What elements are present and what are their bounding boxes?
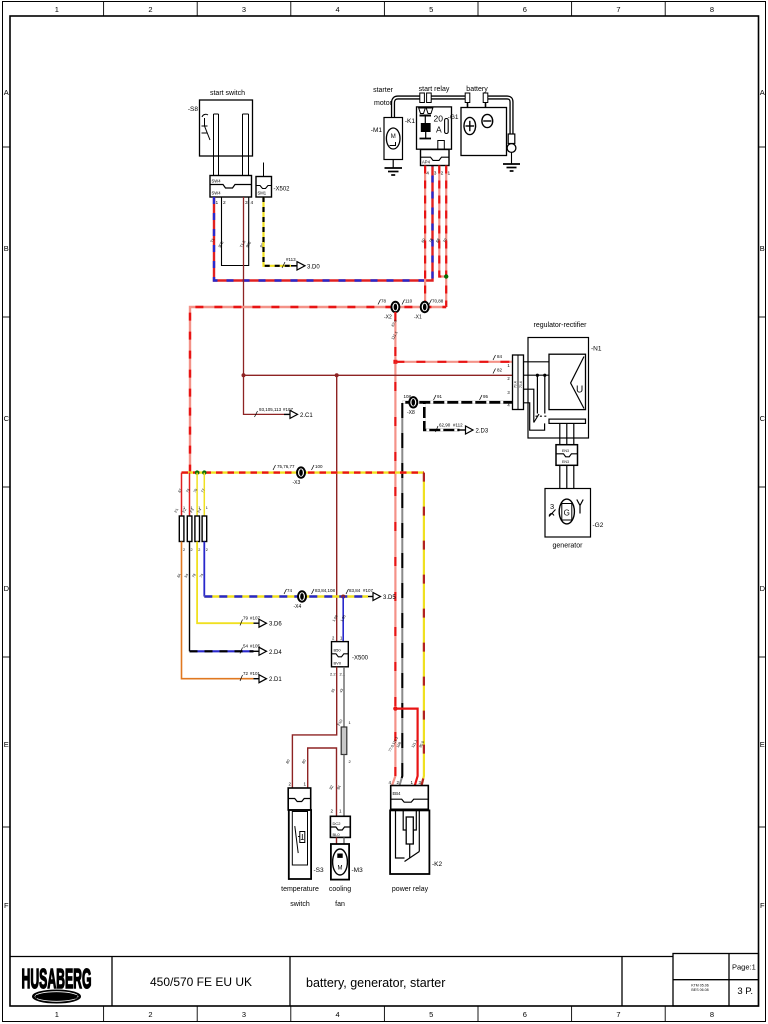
svg-text:3: 3 <box>242 5 246 14</box>
svg-text:3: 3 <box>550 502 554 511</box>
svg-text:A: A <box>760 88 765 97</box>
svg-text:54: 54 <box>243 644 249 649</box>
connector node X8 <box>409 397 417 407</box>
green junction dots on X3 bus <box>195 470 199 474</box>
svg-text:-S8: -S8 <box>188 106 199 113</box>
bus black/white X8 to regulator pin4 <box>402 401 512 404</box>
svg-text:start switch: start switch <box>210 90 245 97</box>
svg-text:C: C <box>760 414 766 423</box>
fuse pin1 numbers <box>183 506 208 510</box>
svg-text:EB4: EB4 <box>393 791 402 796</box>
connector node X3 <box>297 467 305 477</box>
svg-text:82: 82 <box>497 368 503 373</box>
svg-text:4: 4 <box>336 1010 340 1019</box>
relay wire labels <box>421 238 448 244</box>
regulator connector strip <box>513 355 524 410</box>
junction dot brown left <box>242 373 246 377</box>
svg-text:temperature: temperature <box>281 886 319 893</box>
svg-text:450/570 FE EU UK: 450/570 FE EU UK <box>150 975 252 989</box>
svg-text:7: 7 <box>616 5 620 14</box>
fuse feed wires <box>181 473 183 516</box>
svg-text:75,76,77: 75,76,77 <box>277 464 295 469</box>
svg-text:100: 100 <box>315 464 323 469</box>
svg-text:-X3: -X3 <box>293 480 301 486</box>
wire S8 pin1 red/blue to start relay pin3 <box>214 166 433 281</box>
svg-text:70.4: 70.4 <box>514 381 518 388</box>
svg-text:1: 1 <box>55 1010 59 1019</box>
svg-text:2: 2 <box>441 171 444 177</box>
wire X2 vertical red/white down to power relay pin4 <box>392 312 395 786</box>
svg-text:#107: #107 <box>363 588 374 593</box>
svg-text:BL0: BL0 <box>333 832 341 837</box>
svg-text:1: 1 <box>448 171 451 177</box>
svg-text:-X4: -X4 <box>294 604 302 610</box>
svg-text:-M1: -M1 <box>371 127 383 134</box>
svg-text:6: 6 <box>523 5 527 14</box>
wire blue F4 drop to X4 bus <box>203 542 205 597</box>
K1 internal terminals <box>419 108 426 114</box>
power relay pin numbers <box>389 780 422 785</box>
svg-text:F: F <box>760 901 765 910</box>
svg-text:C: C <box>4 414 10 423</box>
svg-text:2: 2 <box>148 1010 152 1019</box>
svg-text:-N1: -N1 <box>591 346 602 353</box>
bus red/white X2-X1 with left drop <box>190 307 446 473</box>
svg-text:2.D1: 2.D1 <box>269 677 282 683</box>
svg-text:84: 84 <box>497 354 503 359</box>
svg-text:3.D6: 3.D6 <box>269 622 282 628</box>
svg-text:fan: fan <box>335 901 345 908</box>
junction on X2 wire to regulator <box>393 360 397 364</box>
fuse F1 <box>179 516 184 542</box>
battery G1 box <box>461 108 507 156</box>
K2 internal circuit <box>396 810 420 861</box>
start relay K1 box <box>417 107 452 149</box>
svg-text:BV0: BV0 <box>334 661 342 666</box>
svg-text:B: B <box>4 244 9 253</box>
svg-text:#107: #107 <box>283 407 294 412</box>
svg-text:2: 2 <box>183 548 185 552</box>
connector node X4 <box>298 591 306 601</box>
svg-text:2: 2 <box>198 548 200 552</box>
svg-text:5: 5 <box>429 5 433 14</box>
svg-text:83,84: 83,84 <box>349 588 361 593</box>
generator symbol <box>559 499 574 524</box>
svg-text:70,88: 70,88 <box>432 299 444 304</box>
start switch pin numbers <box>216 200 254 206</box>
fuse pin2 numbers <box>183 548 208 552</box>
svg-text:E: E <box>4 740 9 749</box>
svg-text:74: 74 <box>287 588 293 593</box>
arrow 3.D5 <box>368 596 373 598</box>
svg-text:B: B <box>760 244 765 253</box>
svg-text:Page:1: Page:1 <box>732 963 756 972</box>
svg-text:F: F <box>4 901 9 910</box>
svg-text:20: 20 <box>434 114 444 124</box>
ground under battery <box>503 164 520 171</box>
svg-text:-M3: -M3 <box>352 867 364 874</box>
svg-text:SW4: SW4 <box>212 191 222 196</box>
connector node X2 <box>391 302 399 312</box>
fan connector stubs <box>336 837 338 844</box>
fuse F10 <box>341 727 347 755</box>
K1 bottom notch <box>438 141 445 150</box>
wire F2 black drop <box>189 542 191 652</box>
cooling fan connector <box>330 816 350 837</box>
relay terminal tabs <box>420 93 425 103</box>
regulator inner box with U symbol <box>549 354 586 409</box>
arrow 2.C1 from brown node <box>284 413 290 415</box>
svg-text:-G2: -G2 <box>593 522 604 529</box>
svg-text:3: 3 <box>245 200 248 206</box>
wire gray fuse to fan pin1 <box>343 755 345 817</box>
svg-text:5: 5 <box>429 1010 433 1019</box>
bus yellow/red X3 horizontal <box>182 471 424 473</box>
start switch connector <box>210 176 252 198</box>
svg-text:motor: motor <box>374 100 393 107</box>
bus yellow/blue X4 <box>204 595 368 597</box>
wire S8 pin2-pin4 loop <box>222 197 249 266</box>
svg-text:A: A <box>436 125 442 135</box>
regulator internal wiring <box>524 362 550 430</box>
svg-text:4: 4 <box>426 171 429 177</box>
wire blue/black to arrow 2.D4 <box>190 650 254 652</box>
svg-text:-X500: -X500 <box>352 656 369 662</box>
row ticks left <box>3 147 11 827</box>
svg-text:start relay: start relay <box>419 86 450 93</box>
svg-text:62,90: 62,90 <box>439 423 451 428</box>
svg-text:SW4: SW4 <box>212 179 222 184</box>
svg-text:SM1: SM1 <box>258 191 267 196</box>
junction green dot pin1/pin2 <box>444 274 448 278</box>
svg-text:91: 91 <box>437 394 443 399</box>
svg-text:-X8: -X8 <box>407 410 415 416</box>
svg-text:#112: #112 <box>453 423 463 428</box>
svg-text:regulator-rectifier: regulator-rectifier <box>534 322 588 329</box>
svg-text:2.C1: 2.C1 <box>300 413 313 419</box>
svg-text:#107: #107 <box>250 616 261 621</box>
wire black drop to arrow 2.D3 <box>424 402 459 430</box>
svg-text:D: D <box>4 584 10 593</box>
starter motor M1 box <box>384 118 403 160</box>
svg-text:EN3: EN3 <box>562 460 569 464</box>
dark red line node3 to regulator pin2 <box>244 374 513 376</box>
svg-text:-S3: -S3 <box>314 867 325 874</box>
fuse F4 <box>202 516 207 542</box>
battery minus pole <box>482 114 493 127</box>
connector X502 <box>256 177 272 198</box>
svg-text:-X2: -X2 <box>384 315 392 321</box>
thick wire relay to battery <box>429 95 468 99</box>
power relay wire labels <box>388 736 425 752</box>
svg-text:78: 78 <box>381 299 387 304</box>
wire black/gray vertical down to power relay pin2 <box>400 403 403 786</box>
M1 motor symbol <box>386 128 400 149</box>
svg-text:-X502: -X502 <box>274 187 291 193</box>
battery plus pole <box>464 117 476 134</box>
wire yellow F3 to arrow 3.D6 <box>197 542 253 624</box>
row ticks right <box>759 147 766 827</box>
connector X500 <box>332 642 349 667</box>
svg-text:E: E <box>760 740 765 749</box>
svg-text:3: 3 <box>242 1010 246 1019</box>
svg-text:95: 95 <box>483 394 489 399</box>
regulator bottom strip <box>549 419 586 423</box>
svg-text:79: 79 <box>243 616 249 621</box>
connector X502 stub wire <box>263 163 265 177</box>
K2 coil <box>406 817 413 844</box>
wire red/white to regulator pin1 <box>395 361 512 363</box>
fuse feed wire labels <box>177 488 205 493</box>
svg-text:DC2: DC2 <box>333 821 342 826</box>
X2 wire labels <box>391 319 399 340</box>
wire relay pin1 red/white down to bus <box>445 166 447 308</box>
svg-text:B50: B50 <box>334 648 342 653</box>
wire S8 pin3 brown down to node <box>244 197 285 414</box>
generator connector block <box>556 445 578 466</box>
battery terminal tabs <box>465 93 470 103</box>
svg-text:4 STROKE FORCE: 4 STROKE FORCE <box>35 995 80 1001</box>
wire X502 yellow/black to arrow 3.D0 <box>264 197 292 266</box>
thick wire battery to ground terminal <box>486 98 512 135</box>
start switch contact symbol <box>202 114 211 140</box>
svg-text:93,105,113: 93,105,113 <box>259 407 282 412</box>
svg-text:1: 1 <box>55 5 59 14</box>
svg-text:2: 2 <box>223 200 226 206</box>
svg-text:3 P.: 3 P. <box>737 986 753 997</box>
svg-text:-G1: -G1 <box>448 114 459 121</box>
junction dot X4 bus <box>341 595 345 599</box>
svg-text:3: 3 <box>434 171 437 177</box>
wire yellow/red vertical to power relay pin3 <box>422 473 424 786</box>
svg-text:-K1: -K1 <box>405 118 416 125</box>
wire dark red temp switch pin1 to fan pin2 <box>308 748 337 816</box>
S3 inner body <box>292 812 307 866</box>
svg-text:U: U <box>576 385 583 396</box>
svg-text:4: 4 <box>251 200 254 206</box>
thick wire M1 to relay <box>393 98 422 119</box>
temperature switch S3 box <box>289 810 311 879</box>
column numbers bottom <box>55 1010 714 1019</box>
generator G2 box <box>545 489 591 538</box>
svg-text:battery: battery <box>466 86 488 93</box>
svg-text:8: 8 <box>710 1010 714 1019</box>
start relay connector <box>421 150 450 166</box>
svg-text:#105: #105 <box>250 644 261 649</box>
wire blue junction to X500 pin1 <box>342 597 344 642</box>
ground under M1 <box>392 160 394 168</box>
temperature switch wire labels <box>285 759 307 765</box>
column numbers top <box>55 5 714 14</box>
svg-text:starter: starter <box>373 87 394 94</box>
star winding Y symbol <box>577 500 583 514</box>
M3 motor symbol <box>333 849 348 875</box>
svg-text:6: 6 <box>523 1010 527 1019</box>
fuse F2 <box>187 516 192 542</box>
wire orange F1 to arrow 2.D1 <box>182 542 254 679</box>
svg-text:BES 06.08: BES 06.08 <box>691 988 708 992</box>
start switch pin rails <box>214 114 249 176</box>
svg-text:EN3: EN3 <box>562 449 569 453</box>
svg-text:2.2: 2.2 <box>330 672 336 677</box>
cooling fan M3 box <box>331 844 349 880</box>
svg-text:1: 1 <box>206 506 208 510</box>
svg-text:M: M <box>338 866 343 872</box>
ring terminal <box>508 134 515 144</box>
svg-text:4: 4 <box>336 5 340 14</box>
svg-text:-X1: -X1 <box>414 315 422 321</box>
wire dark red X500 to temperature switch pin2 <box>292 667 336 788</box>
regulator pin numbers <box>507 363 510 408</box>
svg-text:AP4: AP4 <box>422 160 431 165</box>
column ticks bottom <box>104 1006 666 1022</box>
K1 contact bar <box>420 115 432 117</box>
svg-text:#101: #101 <box>250 671 261 676</box>
svg-text:7: 7 <box>616 1010 620 1019</box>
wire relay pin2 red/white jog to pin1 <box>439 166 446 277</box>
svg-text:3.D5: 3.D5 <box>383 595 396 601</box>
svg-text:110: 110 <box>405 299 413 304</box>
svg-text:A: A <box>4 88 9 97</box>
three phase wires regulator to connector <box>560 423 574 444</box>
svg-text:83,84,108: 83,84,108 <box>315 588 336 593</box>
svg-text:2.D4: 2.D4 <box>269 650 282 656</box>
junction red branch to relay pin1 <box>393 706 397 710</box>
svg-text:72: 72 <box>243 671 249 676</box>
wire dark red vertical to X500 <box>336 375 338 641</box>
svg-text:battery, generator, starter: battery, generator, starter <box>306 976 445 990</box>
svg-text:D: D <box>760 584 766 593</box>
K1 coil <box>421 123 431 132</box>
row letters right <box>760 88 766 910</box>
wire gray X500 to fuse <box>343 667 345 727</box>
svg-text:M: M <box>391 134 396 140</box>
svg-text:3.D0: 3.D0 <box>307 264 320 270</box>
svg-text:2.D3: 2.D3 <box>476 429 489 435</box>
svg-text:switch: switch <box>290 901 310 908</box>
X500 upper wire labels <box>332 614 347 622</box>
start switch S8 box <box>200 100 253 156</box>
S3 switch symbol <box>295 826 298 853</box>
K1 fuse element <box>445 119 449 134</box>
regulator N1 outer box <box>528 338 589 439</box>
power relay connector <box>391 786 429 810</box>
svg-text:2: 2 <box>206 548 208 552</box>
svg-text:#113: #113 <box>286 257 296 262</box>
junction dot brown mid <box>335 373 339 377</box>
svg-text:8: 8 <box>710 5 714 14</box>
wire labels S8 <box>210 238 266 249</box>
svg-text:2: 2 <box>148 5 152 14</box>
X500 lower wire labels <box>330 688 344 693</box>
wire relay pin4 red/white to X1 <box>424 166 426 303</box>
connector node X1 <box>421 302 429 312</box>
Husaberg logo <box>22 964 92 1003</box>
svg-text:1: 1 <box>216 200 219 206</box>
power relay K2 box <box>390 810 429 874</box>
row letters left <box>4 88 10 910</box>
svg-text:2: 2 <box>191 548 193 552</box>
three phase wires connector to generator <box>560 465 574 488</box>
svg-text:cooling: cooling <box>329 886 351 893</box>
svg-text:generator: generator <box>553 543 584 550</box>
start relay pin numbers <box>426 171 450 177</box>
fuse output labels <box>176 573 204 578</box>
svg-text:KTM 05.06: KTM 05.06 <box>691 984 709 988</box>
battery tab stubs <box>467 103 469 108</box>
cooling fan wire labels <box>329 785 342 791</box>
svg-text:power relay: power relay <box>392 886 429 893</box>
svg-text:-K2: -K2 <box>432 861 443 868</box>
svg-text:2.1: 2.1 <box>340 672 346 677</box>
column ticks top <box>104 2 666 16</box>
fuse F3 <box>195 516 200 542</box>
temperature switch connector <box>288 788 311 810</box>
svg-text:G: G <box>564 509 570 518</box>
svg-text:70.4: 70.4 <box>519 381 523 388</box>
title block <box>10 954 759 1007</box>
arrow 3.D0 <box>291 265 297 267</box>
